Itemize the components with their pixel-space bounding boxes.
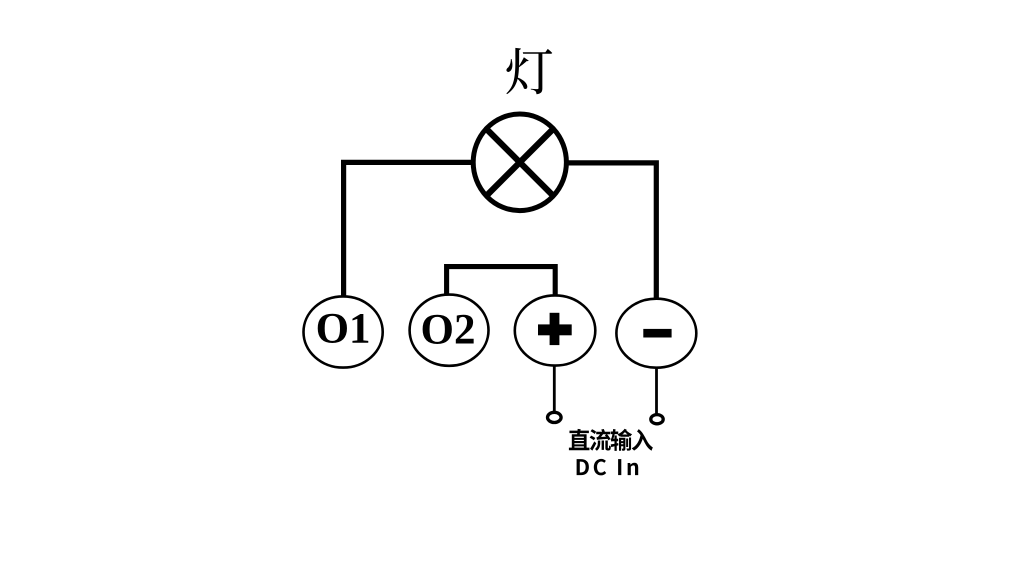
DC input pin (-) open circle	[651, 415, 663, 424]
wire: minus to DC input pin	[655, 369, 658, 414]
wire: lamp left to O1	[344, 162, 472, 295]
label DC In	[577, 459, 589, 475]
terminal O2	[410, 295, 489, 366]
terminal O1	[304, 296, 383, 367]
svg-text:O1: O1	[316, 306, 371, 353]
label 直流输入 (DC input)	[569, 429, 590, 450]
svg-text:O2: O2	[421, 307, 476, 354]
wire: plus to DC input pin	[553, 367, 556, 412]
label 灯 (lamp name)	[506, 48, 552, 94]
lamp: circle with X	[473, 114, 566, 211]
DC input pin (+) open circle	[548, 412, 562, 422]
wire: lamp right to minus terminal	[568, 163, 657, 298]
terminal - (DC negative)	[616, 299, 696, 368]
terminal + (DC positive)	[515, 295, 596, 365]
wire: jumper O2 to plus terminal	[447, 267, 556, 295]
